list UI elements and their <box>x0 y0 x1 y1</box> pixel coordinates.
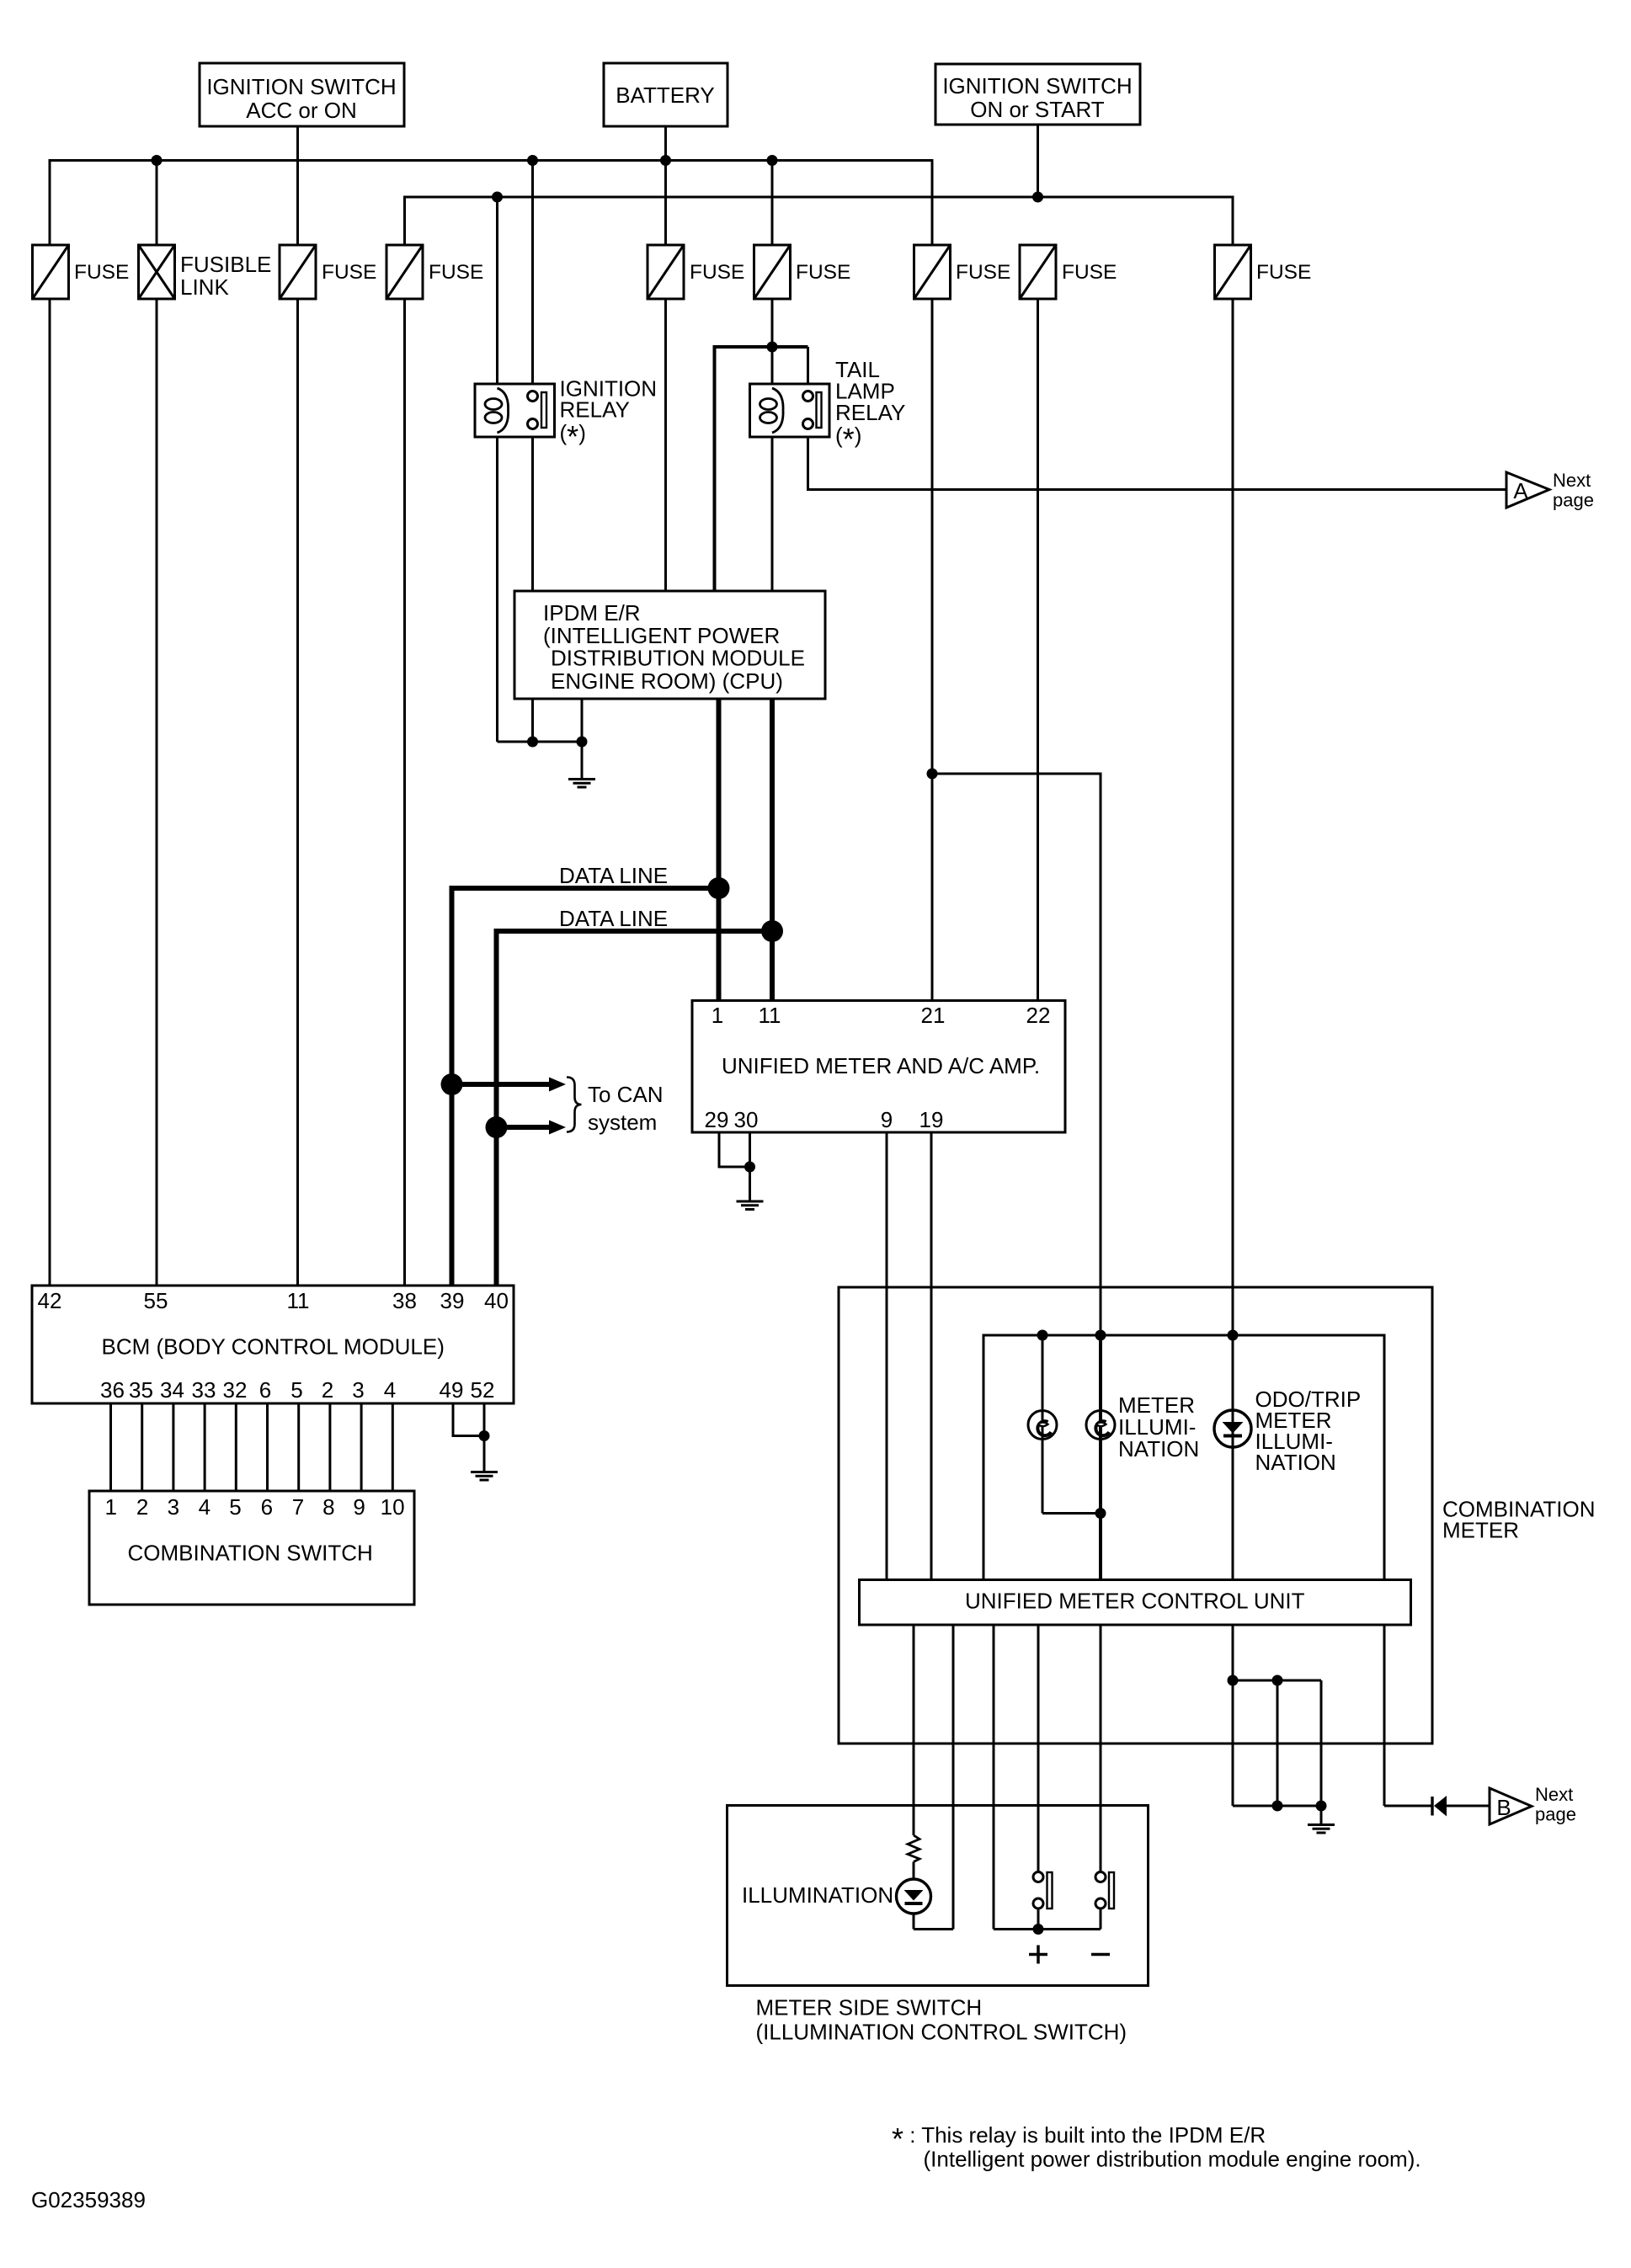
node big dot DATA LINE 2 junction <box>761 920 783 942</box>
wire BCM pin 36 to combination switch 1 <box>109 1403 112 1491</box>
wire tail relay contact to next page A line <box>808 437 1507 490</box>
svg-text:ILLUMINATION: ILLUMINATION <box>742 1882 893 1908</box>
svg-text:ENGINE ROOM) (CPU): ENGINE ROOM) (CPU) <box>551 668 783 694</box>
wire tail relay coil to IPDM top <box>771 437 774 591</box>
svg-text:FUSE: FUSE <box>429 261 483 284</box>
svg-text:42: 42 <box>38 1288 62 1313</box>
svg-text:UNIFIED METER CONTROL UNIT: UNIFIED METER CONTROL UNIT <box>965 1589 1305 1614</box>
svg-text:B: B <box>1496 1795 1511 1820</box>
wire BCM pin 33 to combination switch 4 <box>204 1403 206 1491</box>
wire BCM pin 6 to combination switch 6 <box>266 1403 269 1491</box>
node dot line2 / ignition switch <box>1032 192 1043 203</box>
wire ground drop C <box>1320 1680 1323 1806</box>
svg-text:38: 38 <box>392 1288 417 1313</box>
svg-text:BCM (BODY CONTROL MODULE): BCM (BODY CONTROL MODULE) <box>102 1334 445 1360</box>
svg-text:5: 5 <box>290 1377 302 1403</box>
wire UMCU to next page B <box>1384 1625 1431 1806</box>
svg-text:DISTRIBUTION MODULE: DISTRIBUTION MODULE <box>551 646 805 671</box>
node dot line1 / battery <box>660 155 671 166</box>
node dot line2 / ignition relay coil <box>492 192 503 203</box>
node dot switch plus / common rail <box>1033 1924 1044 1935</box>
fuse F3 <box>280 245 376 299</box>
node dot lower rail / ground stem <box>1316 1801 1327 1812</box>
node dot illum rail / bulb 2 <box>1095 1330 1106 1341</box>
node dot bulb junction <box>1095 1508 1106 1519</box>
wire CAN arrow 1 <box>452 1082 552 1087</box>
fuse F9 <box>1215 245 1312 299</box>
wire bulb1 bottom to bulb2 <box>1042 1512 1101 1515</box>
svg-text:FUSE: FUSE <box>74 261 129 284</box>
wire UMCU ground pin A <box>1232 1625 1234 1680</box>
wire BCM pin 34 to combination switch 3 <box>172 1403 174 1491</box>
svg-text:IPDM E/R: IPDM E/R <box>543 600 641 626</box>
wire from IGNITION SWITCH ON or START down to line 2 <box>1037 125 1039 197</box>
svg-text:30: 30 <box>734 1107 759 1132</box>
svg-text:10: 10 <box>381 1494 405 1520</box>
wire UM amp pin 9 to UMCU <box>886 1132 888 1580</box>
wire switch common rail <box>994 1928 1101 1930</box>
fuse F6 <box>754 245 851 299</box>
wire BCM pin 32 to combination switch 5 <box>235 1403 237 1491</box>
wire IPDM data pin 1 (thick) <box>717 699 722 1001</box>
svg-text:system: system <box>588 1110 657 1135</box>
wire illumination feed branch to combination meter <box>932 774 1101 1335</box>
svg-text:2: 2 <box>136 1494 148 1520</box>
wire from IGNITION SWITCH ACC or ON down to fuse F3 <box>296 126 299 245</box>
svg-text:6: 6 <box>259 1377 271 1403</box>
node dot line1 / fuse F6 <box>767 155 778 166</box>
wire DATA LINE 1 (thick horizontal) <box>452 888 719 1286</box>
svg-text:DATA LINE: DATA LINE <box>559 863 668 888</box>
svg-text:2: 2 <box>322 1377 333 1403</box>
resistor (illumination dimmer) <box>908 1835 919 1862</box>
node dot illum rail / bulb 1 <box>1037 1330 1048 1341</box>
ground symbol below UM amp <box>737 1201 764 1210</box>
wire fuse F3 to BCM pin 11 <box>296 299 299 1286</box>
wire DATA LINE 2 (thick horizontal) <box>497 931 773 1286</box>
wire UMCU pin to switch plus <box>1037 1625 1040 1872</box>
svg-text:METER: METER <box>1442 1518 1519 1543</box>
diode to next page B <box>1432 1796 1490 1817</box>
svg-text:11: 11 <box>759 1003 781 1028</box>
node dot BCM ground junction <box>479 1430 490 1441</box>
svg-text:page: page <box>1535 1804 1576 1825</box>
svg-text:39: 39 <box>440 1288 465 1313</box>
svg-text:21: 21 <box>921 1003 946 1028</box>
wire bus line 1 (ACC/battery feed) <box>50 161 932 246</box>
ground symbol below IPDM <box>568 742 595 787</box>
svg-text:1: 1 <box>104 1494 116 1520</box>
svg-text:FUSE: FUSE <box>322 261 376 284</box>
svg-text:22: 22 <box>1026 1003 1051 1028</box>
node big dot CAN branch 1 <box>441 1073 463 1095</box>
combination meter box <box>839 1287 1432 1744</box>
power source box IGNITION SWITCH ON or START <box>935 64 1140 125</box>
fusible link F2 <box>139 245 272 300</box>
wire ground drop A <box>1232 1680 1234 1806</box>
wire line1 to fusible link F2 <box>156 161 158 246</box>
wire fusible link F2 to BCM pin 55 <box>156 299 158 1286</box>
wire BCM pin 2 to combination switch 8 <box>328 1403 331 1491</box>
svg-text:(ILLUMINATION CONTROL SWITCH): (ILLUMINATION CONTROL SWITCH) <box>756 2020 1127 2045</box>
svg-text:Next: Next <box>1553 470 1591 491</box>
wire UM amp pin 19 to UMCU <box>930 1132 933 1580</box>
svg-text:40: 40 <box>484 1288 509 1313</box>
wire ground drop B <box>1277 1680 1279 1806</box>
wire meter illumination rail <box>983 1335 1384 1580</box>
wire IPDM bottom pin to ground rail (right) <box>581 699 584 742</box>
svg-text:COMBINATION SWITCH: COMBINATION SWITCH <box>128 1541 373 1566</box>
node big dot CAN branch 2 <box>486 1116 508 1138</box>
wire BCM pin 3 to combination switch 9 <box>360 1403 363 1491</box>
svg-text:29: 29 <box>705 1107 729 1132</box>
wire UMCU pin to switch common rail <box>993 1625 995 1930</box>
svg-text:G02359389: G02359389 <box>31 2187 146 2212</box>
svg-text:NATION: NATION <box>1255 1450 1336 1475</box>
wire CAN arrow 2 <box>497 1125 552 1130</box>
wire rail corner down to tail relay contact <box>807 347 809 384</box>
svg-text:FUSIBLE: FUSIBLE <box>180 252 271 277</box>
node dot upper rail / drop B <box>1272 1675 1283 1686</box>
wire fuse F9 down to combination meter <box>1232 299 1234 1335</box>
wire UMCU pin to illumination resistor <box>913 1625 915 1835</box>
svg-text:52: 52 <box>471 1377 495 1403</box>
node dot line1 / ignition relay contact <box>527 155 538 166</box>
wire line1 to fuse F6 <box>771 161 774 246</box>
svg-text:11: 11 <box>287 1288 310 1313</box>
wire ground link rail upper <box>1233 1680 1321 1682</box>
node dot pin29/30 ground junction <box>744 1162 755 1173</box>
svg-text:page: page <box>1553 490 1594 511</box>
wire fuse F4 to BCM pin 38 <box>403 299 406 1286</box>
ignition relay <box>475 376 657 455</box>
svg-text:6: 6 <box>261 1494 273 1520</box>
svg-text:35: 35 <box>129 1377 153 1403</box>
wire rail to tail lamp relay coil <box>771 347 774 384</box>
brace to CAN system <box>567 1078 582 1132</box>
svg-text:To CAN: To CAN <box>588 1082 664 1107</box>
node dot ground rail / IPDM pin <box>527 737 538 748</box>
wire UMCU pin to illumination LED return <box>952 1625 955 1930</box>
wire BCM pin 52 to ground <box>483 1403 486 1472</box>
next page connector A <box>1506 470 1594 511</box>
svg-text:(Intelligent power distributio: (Intelligent power distribution module e… <box>924 2147 1421 2172</box>
tail lamp relay <box>750 357 906 456</box>
svg-text:3: 3 <box>168 1494 179 1520</box>
node dot tail relay rail / coil <box>767 342 778 353</box>
svg-text:4: 4 <box>199 1494 211 1520</box>
wire fuse F1 to BCM pin 42 <box>49 299 51 1286</box>
svg-text:8: 8 <box>322 1494 334 1520</box>
power source box IGNITION SWITCH ACC or ON <box>200 63 404 126</box>
odo/trip meter illumination LED <box>1214 1335 1251 1580</box>
wire fuse F8 to UM amp pin 22 <box>1037 299 1039 1001</box>
node big dot DATA LINE 1 junction <box>708 877 730 899</box>
svg-text:(INTELLIGENT POWER: (INTELLIGENT POWER <box>543 623 780 648</box>
svg-text:ACC or ON: ACC or ON <box>246 98 356 123</box>
wire tail lamp relay feed rail <box>715 347 808 591</box>
svg-text:33: 33 <box>192 1377 216 1403</box>
power source box BATTERY <box>604 63 728 126</box>
meter illumination bulb 1 <box>1028 1335 1057 1514</box>
UNIFIED METER AND A/C AMP box <box>692 1001 1065 1133</box>
BCM box <box>32 1286 514 1403</box>
wire BCM pin 4 to combination switch 10 <box>392 1403 394 1491</box>
wire UMCU pin to switch minus <box>1100 1625 1102 1872</box>
svg-text:49: 49 <box>440 1377 464 1403</box>
node dot lower rail / drop B <box>1272 1801 1283 1812</box>
svg-text:IGNITION SWITCH: IGNITION SWITCH <box>942 73 1132 98</box>
svg-text:BATTERY: BATTERY <box>616 83 715 108</box>
wire ground link rail lower <box>1233 1805 1321 1807</box>
illumination LED <box>897 1862 931 1930</box>
wire BCM pin 35 to combination switch 2 <box>141 1403 143 1491</box>
fuse F5 <box>648 245 744 299</box>
svg-text:36: 36 <box>100 1377 125 1403</box>
switch plus (illumination control +) <box>1029 1872 1053 1964</box>
fuse F7 <box>914 245 1011 299</box>
wire BCM pin 49 to ground junction <box>453 1403 484 1436</box>
wire BCM pin 5 to combination switch 7 <box>297 1403 300 1491</box>
wire UM amp pin 29 to ground junction <box>719 1132 750 1167</box>
fuse F4 <box>386 245 483 299</box>
svg-text:4: 4 <box>384 1377 396 1403</box>
wire IPDM ground rail <box>498 741 583 743</box>
svg-text:NATION: NATION <box>1118 1436 1199 1461</box>
next page connector B <box>1490 1784 1576 1825</box>
wire line2 to ignition relay coil <box>496 197 498 384</box>
node dot fuse F7 line / meter illumination branch <box>927 769 938 780</box>
node dot illum rail / odo trip led <box>1228 1330 1239 1341</box>
svg-text:3: 3 <box>352 1377 364 1403</box>
svg-text:FUSE: FUSE <box>1256 261 1311 284</box>
svg-text:METER SIDE SWITCH: METER SIDE SWITCH <box>756 1995 983 2020</box>
switch minus (illumination control -) <box>1091 1872 1114 1955</box>
svg-text:FUSE: FUSE <box>956 261 1010 284</box>
ground symbol below BCM <box>471 1472 498 1481</box>
svg-text:19: 19 <box>919 1107 944 1132</box>
svg-text:5: 5 <box>229 1494 241 1520</box>
COMBINATION SWITCH box <box>89 1491 414 1605</box>
wire ignition relay contact into IPDM top <box>531 437 534 591</box>
svg-text:A: A <box>1513 478 1528 503</box>
wire fuse F5 to IPDM top <box>664 299 667 591</box>
svg-text:1: 1 <box>712 1003 723 1028</box>
svg-text:DATA LINE: DATA LINE <box>559 906 668 931</box>
svg-text:LINK: LINK <box>180 274 229 300</box>
fuse F1 <box>33 245 130 299</box>
svg-text:ON or START: ON or START <box>970 97 1105 122</box>
wire line1 to ignition relay contact <box>531 161 534 385</box>
wire LED bottom to UMCU return <box>914 1928 953 1930</box>
wire fuse F7 to UM amp pin 21 <box>931 299 934 1001</box>
svg-text:UNIFIED METER AND A/C AMP.: UNIFIED METER AND A/C AMP. <box>722 1053 1040 1078</box>
svg-text:9: 9 <box>353 1494 365 1520</box>
METER SIDE SWITCH box <box>728 1806 1149 1986</box>
svg-text:55: 55 <box>144 1288 168 1313</box>
fuse F8 <box>1020 245 1117 299</box>
node dot line1 / fusible link F2 <box>152 155 163 166</box>
IPDM E/R module box <box>514 591 825 699</box>
wire ignition relay coil to IPDM ground rail (left bypass) <box>496 437 498 742</box>
svg-text:FUSE: FUSE <box>1062 261 1117 284</box>
UNIFIED METER CONTROL UNIT box <box>860 1580 1411 1626</box>
wire from BATTERY down to line 1 <box>664 126 667 161</box>
svg-text:9: 9 <box>881 1107 893 1132</box>
svg-text:7: 7 <box>292 1494 304 1520</box>
svg-text:RELAY: RELAY <box>560 397 630 423</box>
meter illumination bulb 2 <box>1086 1335 1115 1580</box>
wire battery fuse F5 drop <box>664 161 667 246</box>
svg-text:34: 34 <box>160 1377 184 1403</box>
wire IPDM bottom pin to ground rail (left) <box>531 699 534 742</box>
node dot upper rail / pin A <box>1228 1675 1239 1686</box>
svg-text:IGNITION SWITCH: IGNITION SWITCH <box>206 74 396 99</box>
svg-text:Next: Next <box>1535 1784 1573 1805</box>
wire bus line 2 (ON or START feed) <box>405 197 1234 245</box>
footnote <box>892 2122 1421 2172</box>
svg-text:FUSE: FUSE <box>796 261 850 284</box>
wire fuse F6 to tail lamp relay feed rail <box>771 299 774 347</box>
ground symbol combination meter <box>1308 1806 1335 1833</box>
wire IPDM data pin 2 (thick) <box>770 699 775 1001</box>
svg-text:FUSE: FUSE <box>690 261 744 284</box>
node dot ground rail / ground stem <box>577 737 588 748</box>
svg-text:32: 32 <box>223 1377 248 1403</box>
wire UM amp pin 30 to ground <box>749 1132 751 1201</box>
